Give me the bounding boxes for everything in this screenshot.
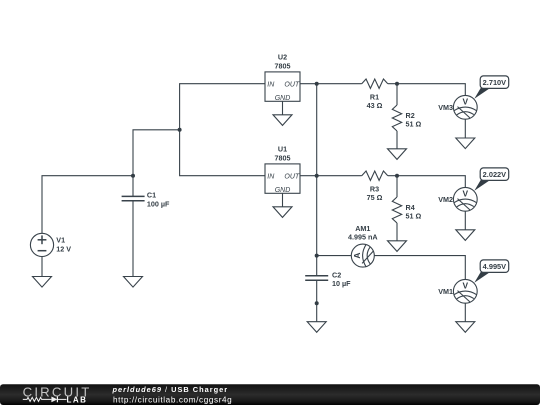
wire R1 right to VM3 [388, 84, 466, 96]
ground under U2 [273, 115, 292, 126]
ground under R4 [388, 241, 407, 252]
svg-text:V: V [463, 189, 469, 199]
wire R4 bottom lead to ground [396, 223, 398, 241]
wire V1 bottom stub [41, 257, 43, 277]
svg-text:12 V: 12 V [56, 245, 71, 254]
wire C2 top lead [316, 256, 318, 276]
regulator U2 box [265, 72, 300, 101]
resistor R3 [362, 171, 388, 180]
wire U1 GND stub [282, 193, 284, 207]
node U2 OUT junction [315, 82, 319, 86]
wire node A down to U1 IN [180, 130, 266, 176]
node below C2 [315, 301, 319, 305]
svg-text:7805: 7805 [275, 153, 291, 162]
svg-text:7805: 7805 [275, 61, 291, 70]
resistor R2 [392, 105, 401, 131]
ground under R2 [388, 149, 407, 160]
wire C1 top lead [132, 176, 134, 197]
callout 4.995V for VM1 [474, 260, 508, 283]
node U1 OUT junction [315, 174, 319, 178]
wire VM1 bottom stub [464, 303, 466, 322]
svg-text:51 Ω: 51 Ω [406, 119, 422, 128]
svg-text:C2: C2 [332, 270, 341, 279]
wire C2 bottom lead to ground [316, 280, 318, 321]
svg-text:2.022V: 2.022V [483, 170, 506, 179]
wire R2 top lead [396, 84, 398, 105]
svg-text:GND: GND [275, 187, 291, 194]
svg-text:perldude69 / USB Charger: perldude69 / USB Charger [112, 385, 229, 394]
callout 2.710V for VM3 [474, 76, 508, 99]
wire C1 node up-jog to node A [133, 130, 180, 176]
voltmeter VM2 [453, 187, 477, 211]
wire R4 top lead [396, 176, 398, 197]
wire VM2 bottom stub [464, 211, 466, 230]
svg-text:VM2: VM2 [438, 195, 453, 204]
pin labels U1 [267, 174, 300, 195]
svg-text:V: V [463, 97, 469, 107]
resistor R1 [362, 79, 388, 88]
svg-text:LAB: LAB [67, 395, 88, 404]
ground under C2 [307, 322, 326, 333]
node AM1 row junction [315, 254, 319, 258]
ground under VM3 [456, 138, 475, 149]
svg-text:http://circuitlab.com/cggsr4g: http://circuitlab.com/cggsr4g [113, 395, 232, 404]
voltmeter VM3 [453, 95, 477, 119]
logo resistor zigzag [23, 397, 52, 401]
svg-text:100 µF: 100 µF [147, 200, 170, 209]
logo diode [51, 397, 66, 403]
svg-text:U2: U2 [278, 53, 287, 62]
wire U2 GND stub [282, 101, 284, 115]
wire AM1 right to VM1 [374, 256, 465, 280]
ground under C1 [124, 277, 143, 288]
svg-text:IN: IN [267, 82, 275, 89]
ground under VM2 [456, 230, 475, 241]
svg-text:4.995V: 4.995V [483, 262, 506, 271]
wire C1 bottom lead to ground [132, 201, 134, 277]
footer bar [0, 384, 540, 405]
ground under U1 [273, 207, 292, 218]
wire rail to AM1 left [317, 255, 352, 257]
wire node A up to U2 IN [180, 84, 266, 130]
svg-text:V1: V1 [56, 235, 65, 244]
ground under V1 [33, 277, 52, 288]
wire U1 OUT to R3 [300, 175, 362, 177]
svg-text:2.710V: 2.710V [483, 78, 506, 87]
svg-text:OUT: OUT [284, 174, 300, 181]
svg-text:A: A [352, 253, 362, 259]
wire R2 bottom lead to ground [396, 131, 398, 149]
wire V1 top to C1 node [42, 176, 133, 234]
wire rail U2 OUT down to AM1 row [316, 84, 318, 256]
svg-text:OUT: OUT [284, 82, 300, 89]
svg-text:IN: IN [267, 174, 275, 181]
voltage source V1 [30, 233, 53, 256]
svg-text:U1: U1 [278, 145, 287, 154]
callout 2.022V for VM2 [474, 168, 508, 191]
svg-text:75 Ω: 75 Ω [367, 193, 383, 202]
wire U2 OUT to R1 [300, 83, 362, 85]
node R3-R4 junction [395, 174, 399, 178]
svg-text:C1: C1 [147, 191, 156, 200]
resistor R4 [392, 197, 401, 223]
ground under VM1 [456, 322, 475, 333]
svg-text:VM3: VM3 [438, 103, 453, 112]
ammeter AM1 [351, 244, 374, 267]
wire R3 right to VM2 [388, 176, 466, 188]
svg-text:V: V [463, 281, 469, 291]
node A jog junction [178, 128, 182, 132]
pin labels U2 [267, 82, 300, 103]
svg-text:43 Ω: 43 Ω [367, 101, 383, 110]
capacitor C1 [122, 196, 145, 200]
svg-text:10 µF: 10 µF [332, 279, 351, 288]
wire VM3 bottom stub [464, 119, 466, 138]
svg-text:VM1: VM1 [438, 287, 453, 296]
voltmeter VM1 [453, 279, 477, 303]
regulator U1 box [265, 164, 300, 193]
svg-text:51 Ω: 51 Ω [406, 211, 422, 220]
svg-text:4.995 nA: 4.995 nA [348, 233, 378, 242]
capacitor C2 [305, 276, 328, 281]
svg-text:GND: GND [275, 95, 291, 102]
node C1 junction [131, 174, 135, 178]
node R1-R2 junction [395, 82, 399, 86]
